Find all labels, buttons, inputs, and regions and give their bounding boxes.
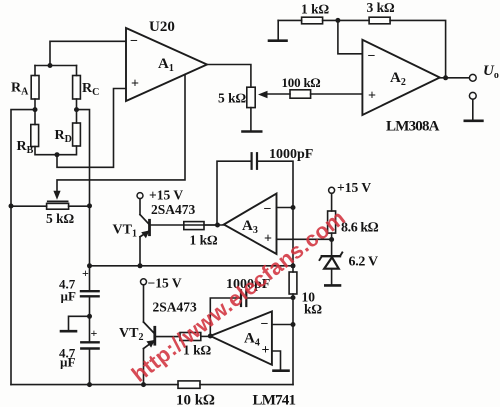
svg-text:−: −	[261, 317, 269, 332]
svg-text:5 kΩ: 5 kΩ	[218, 91, 247, 106]
svg-text:VT1: VT1	[113, 223, 137, 240]
svg-text:µF: µF	[60, 355, 75, 370]
svg-text:+15 V: +15 V	[149, 188, 183, 203]
svg-text:A2: A2	[390, 70, 406, 88]
svg-text:Uo: Uo	[483, 63, 499, 81]
svg-text:+: +	[82, 266, 89, 280]
svg-text:+: +	[264, 232, 272, 247]
svg-text:−15 V: −15 V	[148, 276, 182, 291]
svg-text:100 kΩ: 100 kΩ	[282, 75, 321, 90]
svg-text:−: −	[368, 49, 376, 64]
svg-text:LM308A: LM308A	[386, 119, 440, 135]
svg-text:A1: A1	[158, 56, 174, 74]
svg-text:−: −	[130, 34, 138, 49]
svg-text:A3: A3	[242, 218, 258, 236]
svg-text:LM741: LM741	[253, 393, 296, 407]
svg-text:1 kΩ: 1 kΩ	[301, 2, 330, 17]
svg-text:kΩ: kΩ	[304, 302, 323, 317]
svg-text:2SA473: 2SA473	[151, 202, 196, 217]
svg-text:1000pF: 1000pF	[269, 147, 313, 162]
svg-text:µF: µF	[61, 289, 76, 304]
svg-text:10 kΩ: 10 kΩ	[176, 393, 215, 407]
svg-text:+: +	[262, 343, 270, 358]
svg-text:6.2 V: 6.2 V	[349, 255, 379, 270]
svg-text:3 kΩ: 3 kΩ	[367, 0, 396, 15]
svg-text:+: +	[131, 77, 139, 92]
svg-text:+: +	[91, 326, 98, 340]
svg-text:5 kΩ: 5 kΩ	[46, 211, 75, 226]
svg-text:RD: RD	[55, 128, 72, 145]
svg-text:−: −	[264, 202, 272, 217]
svg-text:2SA473: 2SA473	[153, 300, 198, 315]
svg-text:+15 V: +15 V	[337, 180, 371, 195]
svg-text:+: +	[368, 89, 376, 104]
svg-text:U20: U20	[149, 19, 175, 35]
svg-text:1 kΩ: 1 kΩ	[190, 233, 219, 248]
svg-text:A4: A4	[244, 331, 260, 349]
svg-text:RA: RA	[11, 81, 29, 98]
svg-text:RC: RC	[82, 81, 99, 98]
svg-text:VT2: VT2	[119, 326, 143, 343]
